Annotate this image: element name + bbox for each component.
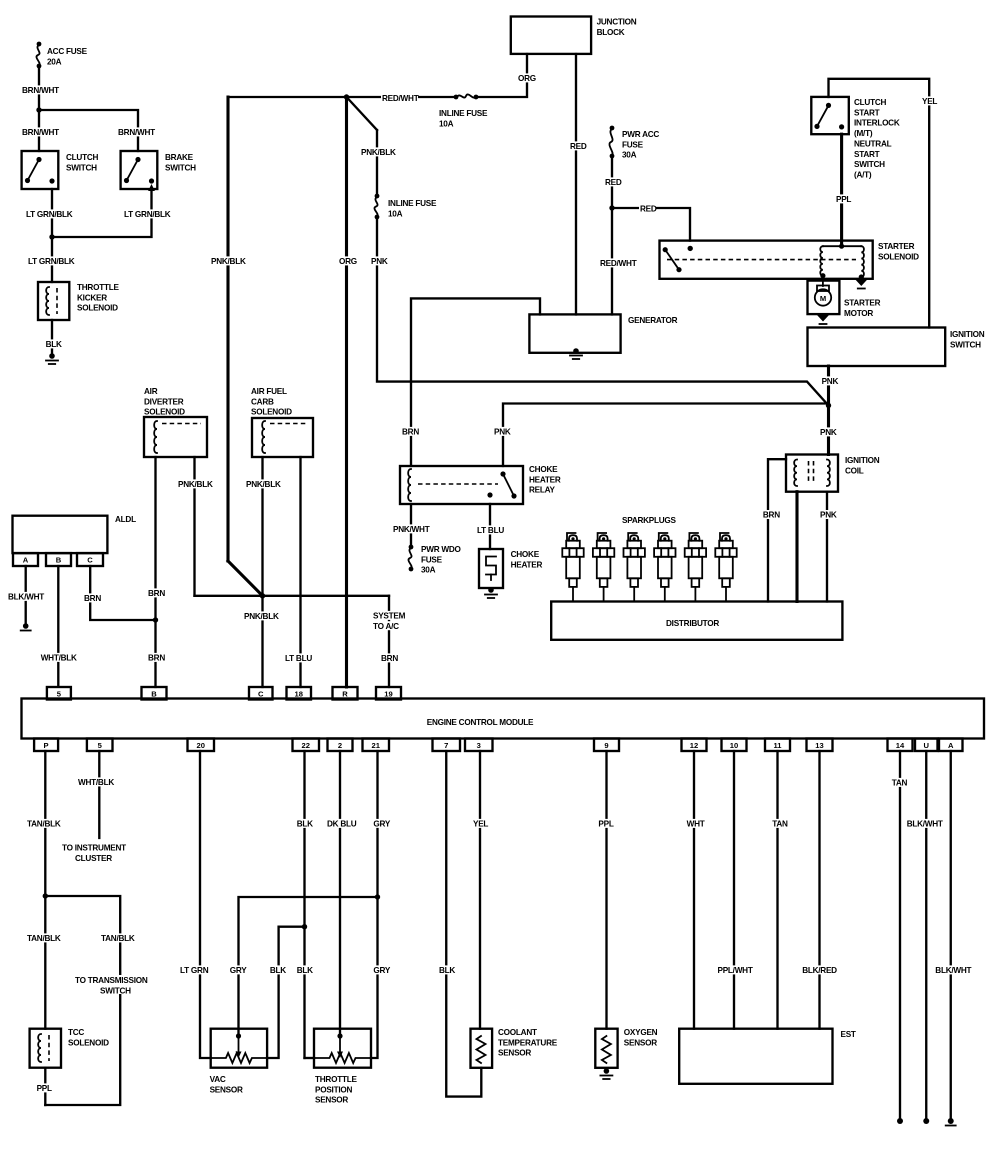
svg-text:CHOKE: CHOKE [511, 550, 540, 559]
svg-text:DISTRIBUTOR: DISTRIBUTOR [666, 619, 719, 628]
wire label LT BLU [284, 653, 316, 662]
svg-text:DK BLU: DK BLU [327, 820, 357, 829]
wire PNK from choke heater relay across [503, 404, 829, 467]
wire label RED [639, 204, 656, 213]
ALDL terminal A [13, 553, 38, 566]
wire ORG to junction block [477, 54, 527, 97]
wire YEL top run [829, 79, 930, 328]
wire BLK to ground [51, 320, 53, 355]
svg-text:SPARKPLUGS: SPARKPLUGS [622, 516, 677, 525]
node junction LT GRN/BLK [49, 234, 54, 239]
wire BLK/WHT from ECM U [925, 751, 927, 1120]
svg-text:BLK/RED: BLK/RED [802, 966, 837, 975]
svg-text:C: C [87, 556, 93, 565]
spark plug [562, 533, 583, 602]
svg-text:YEL: YEL [922, 97, 937, 106]
wire label LT BLU [476, 525, 508, 534]
svg-text:YEL: YEL [473, 820, 488, 829]
node junction PNK [826, 403, 831, 408]
wire PNK from ignition switch [827, 366, 830, 455]
wire PNK/BLK horizontal link [195, 595, 390, 597]
wire PNK down and across to ignition junction [377, 217, 829, 406]
wire PNK from ignition coil to distributor [826, 492, 828, 602]
svg-text:SWITCH: SWITCH [165, 163, 196, 172]
wire LT GRN/BLK from clutch switch [51, 189, 53, 282]
svg-text:BLK/WHT: BLK/WHT [935, 966, 971, 975]
switch BRAKE SWITCH [121, 151, 158, 189]
svg-text:BLK/WHT: BLK/WHT [907, 820, 943, 829]
wire BLK branch to VAC sensor [267, 927, 304, 1058]
node junction PNK/BLK [260, 593, 265, 598]
spark plug [593, 533, 614, 602]
svg-text:BRN: BRN [763, 511, 780, 520]
svg-text:RED: RED [570, 142, 587, 151]
svg-text:INLINE FUSE: INLINE FUSE [439, 109, 488, 118]
svg-text:CLUTCH: CLUTCH [854, 98, 886, 107]
wire label BLK [296, 819, 313, 828]
terminal dot below ALDL A [23, 623, 29, 629]
wire BLK into TPS [305, 1057, 315, 1059]
ECM bottom connector 7 [433, 739, 461, 752]
ECM bottom connector 9 [594, 739, 619, 752]
svg-text:13: 13 [815, 741, 823, 750]
svg-text:THROTTLE: THROTTLE [77, 283, 119, 292]
svg-text:TAN: TAN [892, 779, 908, 788]
label SYSTEM TO A/C [372, 611, 404, 620]
svg-text:ACC FUSE: ACC FUSE [47, 47, 88, 56]
wire label BLK [45, 339, 62, 348]
svg-text:THROTTLE: THROTTLE [315, 1075, 357, 1084]
spark plug [715, 533, 736, 602]
wire label BRN [147, 588, 164, 597]
wire PNK diagonal from junction [347, 97, 378, 130]
wire LT BLU to choke heater [489, 504, 491, 549]
wire WHT/BLK from ECM 5 to instrument cluster [98, 751, 100, 838]
ECM bottom connector 13 [807, 739, 833, 752]
svg-text:BRN: BRN [148, 589, 165, 598]
svg-text:30A: 30A [622, 151, 637, 160]
svg-text:PWR ACC: PWR ACC [622, 130, 659, 139]
wire label PNK/BLK [360, 147, 397, 156]
wire TAN from ECM 14 [899, 751, 901, 1120]
svg-text:CHOKE: CHOKE [529, 465, 558, 474]
svg-text:TAN/BLK: TAN/BLK [27, 820, 61, 829]
wire TAN from ECM 11 to EST [776, 751, 778, 1029]
wire label BLK [438, 965, 455, 974]
svg-text:IGNITION: IGNITION [845, 456, 880, 465]
svg-text:B: B [151, 689, 157, 698]
wire label LT GRN/BLK [123, 209, 180, 218]
wire label BRN/WHT [117, 127, 154, 136]
svg-text:START: START [854, 108, 880, 117]
wire label TAN/BLK [100, 933, 137, 942]
svg-text:FUSE: FUSE [622, 140, 644, 149]
wire label PPL [36, 1083, 53, 1092]
svg-text:GRY: GRY [230, 966, 247, 975]
wire label DK BLU [326, 819, 363, 828]
svg-text:5: 5 [57, 689, 62, 698]
svg-text:DIVERTER: DIVERTER [144, 397, 184, 406]
ECM top connector R [333, 687, 358, 700]
junction block [511, 17, 591, 54]
wire BRN SYSTEM TO A/C to ECM 19 [388, 596, 390, 687]
fuse PWR WDO FUSE 30A [409, 545, 414, 550]
ECM bottom connector 21 [363, 739, 390, 752]
fuse INLINE FUSE 10A horizontal [454, 95, 459, 100]
wire BLK/RED from ECM 13 to EST [818, 751, 820, 1029]
svg-text:WHT/BLK: WHT/BLK [78, 778, 114, 787]
svg-text:KICKER: KICKER [77, 293, 107, 302]
spark plug [654, 533, 675, 602]
svg-text:BRN: BRN [402, 428, 419, 437]
fuse INLINE FUSE 10A vertical [375, 194, 380, 199]
ECM bottom connector 10 [722, 739, 747, 752]
svg-text:5: 5 [98, 741, 103, 750]
fuse PWR ACC FUSE 30A [610, 126, 615, 131]
svg-text:PNK: PNK [820, 511, 837, 520]
svg-text:SWITCH: SWITCH [66, 163, 97, 172]
svg-text:2: 2 [338, 741, 342, 750]
wire label BRN/WHT [21, 85, 58, 94]
ECM bottom connector U [915, 739, 938, 752]
svg-text:7: 7 [444, 741, 448, 750]
starter solenoid [660, 241, 873, 279]
svg-text:12: 12 [690, 741, 698, 750]
wire PNK/BLK from air diverter right pin [193, 457, 195, 596]
svg-text:R: R [342, 689, 348, 698]
svg-text:ORG: ORG [339, 257, 357, 266]
wire PNK/BLK segment [376, 130, 378, 196]
wire GRY branch to VAC wiper [239, 897, 378, 1036]
wire label RED [569, 141, 586, 150]
svg-text:BLK/WHT: BLK/WHT [8, 593, 44, 602]
svg-text:BRN/WHT: BRN/WHT [22, 86, 59, 95]
wire label PNK [821, 376, 838, 385]
VAC sensor [211, 1029, 267, 1068]
wire label BRN [401, 427, 418, 436]
wire ORG vertical to ECM connector R [345, 97, 348, 687]
ALDL terminal B [46, 553, 71, 566]
distributor [551, 602, 842, 640]
svg-text:CARB: CARB [251, 397, 274, 406]
wire label LT GRN [179, 965, 211, 974]
wire ignition coil center to distributor [795, 492, 798, 602]
starter solenoid coil [823, 245, 861, 247]
ECM bottom connector 3 [465, 739, 493, 752]
wire label TAN [891, 778, 908, 787]
wire PNK/BLK diagonal to junction [228, 561, 263, 596]
wire DK BLU from ECM 2 to TPS wiper [339, 751, 341, 1036]
svg-text:TO TRANSMISSION: TO TRANSMISSION [75, 976, 148, 985]
ground below generator [573, 348, 579, 354]
svg-text:SYSTEM: SYSTEM [373, 612, 406, 621]
wire label RED/WHT [599, 258, 636, 267]
svg-text:10: 10 [730, 741, 738, 750]
wire label PPL [597, 819, 614, 828]
svg-text:19: 19 [384, 689, 392, 698]
ground below starter solenoid coil [855, 280, 867, 287]
wire from generator to choke heater relay BRN [411, 298, 540, 466]
ignition coil [786, 455, 838, 492]
svg-text:BLOCK: BLOCK [597, 28, 625, 37]
ECM bottom connector A [939, 739, 963, 752]
svg-text:INLINE FUSE: INLINE FUSE [388, 199, 437, 208]
starter motor [808, 281, 840, 315]
wire label BLK [269, 965, 286, 974]
wire BRN from ignition coil to distributor [768, 459, 786, 601]
generator [529, 314, 620, 352]
svg-text:WHT/BLK: WHT/BLK [41, 654, 77, 663]
starter solenoid RED input node [688, 246, 693, 251]
svg-text:PPL: PPL [598, 820, 613, 829]
wire LT BLU from air fuel carb to ECM 18 [299, 457, 301, 687]
wire label WHT/BLK [77, 777, 114, 786]
svg-text:SENSOR: SENSOR [210, 1085, 243, 1094]
svg-text:GRY: GRY [373, 820, 390, 829]
svg-text:OXYGEN: OXYGEN [624, 1028, 658, 1037]
wire label YEL [472, 819, 489, 828]
svg-text:BRN: BRN [381, 654, 398, 663]
svg-text:PNK/WHT: PNK/WHT [393, 525, 430, 534]
ECM bottom connector 5 [87, 739, 113, 752]
ECM bottom connector 2 [328, 739, 353, 752]
svg-text:ORG: ORG [518, 74, 536, 83]
svg-text:SOLENOID: SOLENOID [68, 1038, 109, 1047]
svg-text:21: 21 [372, 741, 381, 750]
wire label PNK/WHT [392, 524, 429, 533]
wire RED from PWR ACC fuse [611, 156, 613, 314]
svg-text:COIL: COIL [845, 466, 864, 475]
svg-text:PPL: PPL [836, 195, 851, 204]
svg-text:SENSOR: SENSOR [315, 1096, 348, 1105]
ground below starter motor [817, 315, 829, 322]
wire GRY from ECM 21 [376, 751, 378, 897]
wire PPL from TCC solenoid [44, 1068, 46, 1105]
svg-text:PNK/BLK: PNK/BLK [178, 480, 213, 489]
svg-text:ALDL: ALDL [115, 515, 136, 524]
ECM bottom connector 11 [765, 739, 790, 752]
svg-text:BRN/WHT: BRN/WHT [118, 128, 155, 137]
svg-text:AIR: AIR [144, 387, 158, 396]
svg-text:TO INSTRUMENT: TO INSTRUMENT [62, 844, 126, 853]
wire PPL/WHT from ECM 10 to EST [733, 751, 735, 1029]
svg-text:TEMPERATURE: TEMPERATURE [498, 1038, 558, 1047]
wire label GRY [372, 819, 389, 828]
wire PNK/BLK main vertical [226, 97, 229, 561]
svg-text:BLK: BLK [46, 340, 62, 349]
svg-text:BLK: BLK [439, 966, 455, 975]
ground below oxygen sensor [604, 1068, 610, 1074]
wire PPL to starter solenoid [840, 134, 843, 246]
svg-text:(A/T): (A/T) [854, 170, 872, 179]
switch CLUTCH SWITCH [22, 151, 59, 189]
svg-text:LT GRN/BLK: LT GRN/BLK [28, 257, 75, 266]
wire PNK/WHT to PWR WDO fuse [410, 504, 412, 547]
ECM top connector 19 [376, 687, 401, 700]
svg-text:BRN/WHT: BRN/WHT [22, 128, 59, 137]
svg-text:NEUTRAL: NEUTRAL [854, 140, 892, 149]
wire label BLK/WHT [7, 592, 44, 601]
oxygen sensor [595, 1029, 617, 1068]
svg-text:STARTER: STARTER [844, 299, 881, 308]
svg-text:LT GRN/BLK: LT GRN/BLK [124, 210, 171, 219]
svg-text:RELAY: RELAY [529, 486, 556, 495]
svg-text:B: B [56, 556, 62, 565]
svg-text:SOLENOID: SOLENOID [878, 252, 919, 261]
svg-text:HEATER: HEATER [529, 475, 561, 484]
svg-text:PNK: PNK [371, 257, 388, 266]
svg-text:START: START [854, 150, 880, 159]
wire label GRY [372, 965, 389, 974]
switch CLUTCH START INTERLOCK [811, 97, 849, 134]
svg-text:ENGINE CONTROL MODULE: ENGINE CONTROL MODULE [427, 718, 534, 727]
ALDL connector [13, 516, 108, 553]
svg-text:RED/WHT: RED/WHT [382, 94, 419, 103]
svg-text:SOLENOID: SOLENOID [144, 408, 185, 417]
ECM bottom connector 22 [293, 739, 320, 752]
wire RED to starter solenoid [612, 208, 690, 241]
svg-text:A: A [948, 741, 954, 750]
wire label PPL [835, 194, 852, 203]
svg-text:BLK: BLK [297, 966, 313, 975]
svg-text:LT BLU: LT BLU [477, 526, 504, 535]
node junction BLK [302, 924, 307, 929]
svg-text:COOLANT: COOLANT [498, 1028, 537, 1037]
svg-text:14: 14 [896, 741, 905, 750]
wire label BRN/WHT [21, 127, 58, 136]
solenoid AIR FUEL CARB SOLENOID [252, 418, 313, 457]
wire TAN/BLK from ECM P [44, 751, 46, 1029]
ground below choke heater [488, 587, 494, 593]
wire BLK/WHT from ALDL A [25, 566, 27, 624]
svg-text:VAC: VAC [210, 1075, 226, 1084]
svg-text:SENSOR: SENSOR [624, 1038, 657, 1047]
wire solenoid to starter motor [822, 276, 824, 286]
svg-text:SOLENOID: SOLENOID [251, 408, 292, 417]
EST module [679, 1029, 832, 1084]
wire label GRY [229, 965, 246, 974]
choke heater [479, 549, 503, 588]
svg-text:FUSE: FUSE [421, 555, 443, 564]
node junction BRN [153, 617, 158, 622]
node junction RED/WHT ORG PNK [344, 94, 349, 99]
wire WHT/BLK from ALDL B to ECM 5 [57, 566, 59, 686]
wire label BRN [380, 653, 397, 662]
terminal dot BLK/WHT with tick [948, 1118, 954, 1124]
wire label BRN [762, 510, 779, 519]
wire branch to brake switch [39, 110, 138, 151]
svg-text:PNK: PNK [494, 428, 511, 437]
coolant temperature sensor [471, 1029, 493, 1068]
node junction BRN/WHT split [36, 107, 41, 112]
wire label YEL [921, 96, 938, 105]
svg-text:EST: EST [841, 1030, 856, 1039]
svg-text:20: 20 [197, 741, 205, 750]
svg-text:POSITION: POSITION [315, 1085, 352, 1094]
svg-text:BLK: BLK [297, 820, 313, 829]
wire RED/WHT horizontal [228, 96, 455, 98]
svg-text:SWITCH: SWITCH [100, 987, 131, 996]
wire label BLK [296, 965, 313, 974]
svg-text:BRN: BRN [148, 654, 165, 663]
svg-text:CLUTCH: CLUTCH [66, 153, 98, 162]
ECM bottom connector P [34, 739, 58, 752]
wire label BLK/WHT [906, 819, 943, 828]
wire label ORG [338, 256, 355, 265]
svg-text:CLUSTER: CLUSTER [75, 854, 112, 863]
solenoid TCC SOLENOID [30, 1029, 61, 1068]
wire BRN/WHT from ACC fuse [38, 66, 40, 151]
svg-text:PNK/BLK: PNK/BLK [211, 257, 246, 266]
label TO TRANSMISSION SWITCH [74, 975, 150, 994]
wire GRY to TPS [371, 897, 378, 1058]
wire label TAN/BLK [26, 933, 63, 942]
svg-text:PWR WDO: PWR WDO [421, 545, 462, 554]
svg-text:RED/WHT: RED/WHT [600, 259, 637, 268]
wire PPL from ECM 9 to oxygen sensor [605, 751, 607, 1029]
wire BLK from ECM 7 to coolant sensor [446, 751, 481, 1097]
svg-text:SENSOR: SENSOR [498, 1049, 531, 1058]
svg-text:LT GRN: LT GRN [180, 966, 209, 975]
ALDL terminal C [77, 553, 103, 566]
svg-text:JUNCTION: JUNCTION [597, 18, 637, 27]
wire label PNK [493, 427, 510, 436]
svg-text:TAN/BLK: TAN/BLK [27, 934, 61, 943]
wire label BRN [147, 653, 164, 662]
wire label PNK/BLK [243, 611, 280, 620]
wire label BLK/RED [801, 965, 838, 974]
svg-text:10A: 10A [388, 209, 403, 218]
fuse ACC FUSE 20A [37, 42, 42, 47]
terminal dot TAN [897, 1118, 903, 1124]
svg-text:INTERLOCK: INTERLOCK [854, 119, 900, 128]
svg-text:(M/T): (M/T) [854, 129, 873, 138]
svg-text:HEATER: HEATER [511, 560, 543, 569]
wire BRN from ALDL C [90, 566, 155, 620]
svg-text:TO A/C: TO A/C [373, 622, 399, 631]
svg-text:18: 18 [295, 689, 303, 698]
svg-text:PNK: PNK [820, 428, 837, 437]
wire YEL from ECM 3 to coolant sensor [479, 751, 481, 1029]
svg-text:C: C [258, 689, 264, 698]
svg-text:LT GRN/BLK: LT GRN/BLK [26, 210, 73, 219]
svg-text:BRN: BRN [84, 594, 101, 603]
svg-text:22: 22 [302, 741, 310, 750]
ECM top connector 18 [287, 687, 312, 700]
solenoid THROTTLE KICKER SOLENOID [38, 282, 69, 320]
ignition switch [808, 328, 946, 367]
svg-text:M: M [820, 294, 826, 303]
svg-text:TCC: TCC [68, 1028, 84, 1037]
wire BLK/WHT from ECM A [950, 751, 952, 1120]
spark plug [624, 533, 645, 602]
terminal dot BLK/WHT [923, 1118, 929, 1124]
wire label LT GRN/BLK [25, 209, 82, 218]
svg-text:SOLENOID: SOLENOID [77, 304, 118, 313]
svg-text:PNK/BLK: PNK/BLK [361, 148, 396, 157]
wire label BLK/WHT [934, 965, 971, 974]
node junction TAN/BLK [43, 893, 48, 898]
ECM bottom connector 20 [188, 739, 215, 752]
svg-text:IGNITION: IGNITION [950, 330, 985, 339]
node junction RED [609, 205, 614, 210]
solenoid AIR DIVERTER SOLENOID [144, 417, 207, 457]
svg-text:U: U [924, 741, 930, 750]
svg-text:SWITCH: SWITCH [950, 340, 981, 349]
spark plug [685, 533, 706, 602]
relay CHOKE HEATER RELAY [400, 466, 523, 504]
wire label PNK [819, 510, 836, 519]
